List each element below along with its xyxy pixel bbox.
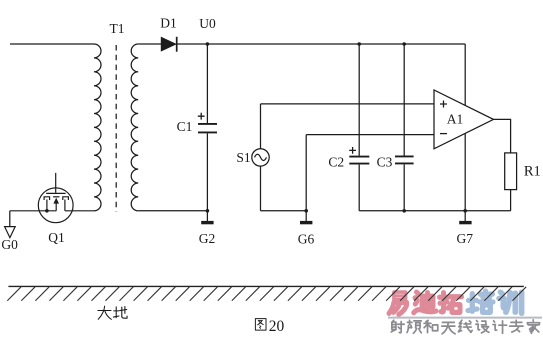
watermark char 计 <box>493 321 507 333</box>
svg-text:C3: C3 <box>377 155 393 170</box>
watermark char 迪 <box>414 292 436 313</box>
wire R1 bottom <box>510 190 512 211</box>
svg-text:A1: A1 <box>447 112 464 127</box>
svg-text:G7: G7 <box>457 231 474 246</box>
svg-text:C1: C1 <box>177 119 193 134</box>
wire op-amp +input <box>261 103 435 105</box>
watermark char 设 <box>476 321 489 333</box>
wire op-amp -input <box>306 134 434 136</box>
wire C2 top lead <box>358 44 360 156</box>
wire -input riser <box>305 135 307 211</box>
D1 cathode bar <box>176 37 178 52</box>
wire top rail down to G7 <box>464 44 466 211</box>
svg-text:C2: C2 <box>328 155 344 170</box>
Q1 arrow (N-channel) <box>53 198 59 204</box>
wire C3 bottom lead <box>403 164 405 210</box>
C3 bottom plate <box>395 162 414 164</box>
op-amp A1 <box>434 90 494 149</box>
watermark char 拓 <box>440 293 462 313</box>
Q1 drain tap <box>64 200 66 211</box>
wire S1 bottom lead <box>260 166 262 211</box>
node C3 bottom dot <box>402 209 406 213</box>
earth hatching <box>7 287 526 301</box>
svg-text:20: 20 <box>269 318 285 335</box>
G6 ground stub <box>305 211 307 221</box>
G7 ground stub <box>464 211 466 221</box>
svg-text:R1: R1 <box>524 164 541 180</box>
wire C3 top lead <box>403 44 405 156</box>
wire bottom right rail <box>359 210 510 212</box>
wire C2 bottom lead <box>358 165 360 211</box>
C1 bottom plate <box>198 131 217 133</box>
watermark char 频 <box>407 320 421 333</box>
Q1 body lead <box>55 202 57 211</box>
wire C1 top lead <box>206 44 208 123</box>
svg-text:G2: G2 <box>199 231 216 246</box>
watermark char 培 <box>468 291 493 312</box>
svg-text:G6: G6 <box>298 232 315 247</box>
wire anode <box>138 43 161 45</box>
svg-text:S1: S1 <box>236 150 250 165</box>
wire drain Q1 to primary <box>65 210 94 212</box>
C2 bottom plate <box>349 163 369 165</box>
Q1 gate lead <box>55 173 57 193</box>
Q1 source tap <box>46 200 48 211</box>
node G6 junction dot <box>304 209 308 213</box>
wire top rail U0 <box>177 43 466 45</box>
D1 anode triangle <box>161 37 175 51</box>
S1 circle <box>252 149 269 166</box>
S1 sine symbol <box>255 154 267 160</box>
label 图 (figure) <box>255 319 266 330</box>
label 大 (earth) <box>98 306 111 319</box>
watermark char 和 <box>424 320 438 332</box>
C2 top plate <box>349 156 369 158</box>
watermark char 易 <box>389 292 407 314</box>
Q1 channel segment source <box>44 197 50 200</box>
watermark char 线 <box>459 320 473 332</box>
C3 top plate <box>395 155 414 157</box>
transformer T1 primary winding <box>94 44 101 211</box>
resistor R1 <box>505 153 517 190</box>
node G2 junction dot <box>206 209 210 213</box>
wire S1 top lead <box>260 104 262 149</box>
svg-text:U0: U0 <box>199 16 216 31</box>
wire G0 riser <box>9 211 11 227</box>
C1 top plate <box>198 123 217 125</box>
plus sign C2 <box>349 147 356 154</box>
Q1 source-body junction dot <box>45 209 49 213</box>
capacitor C2 <box>349 44 369 211</box>
Q1 gate plate <box>46 192 65 194</box>
G7 ground bar <box>459 221 471 224</box>
G6 ground bar <box>300 221 312 224</box>
capacitor C1 <box>198 44 217 211</box>
transformer T1 core (dashed) <box>115 45 117 212</box>
Q1 channel segment body <box>53 196 59 198</box>
svg-text:Q1: Q1 <box>48 230 65 245</box>
op-amp plus input mark <box>440 101 447 108</box>
transformer T1 secondary winding <box>131 44 138 211</box>
transistor Q1 (MOSFET) <box>10 173 94 223</box>
Q1 channel segment drain <box>63 197 69 200</box>
wire S1 to G6 <box>261 210 307 212</box>
watermark underline <box>388 317 542 319</box>
label 地 (earth) <box>113 307 127 319</box>
ground G0 <box>5 227 16 238</box>
wire op-amp output <box>494 119 511 152</box>
capacitor C3 <box>395 44 414 211</box>
svg-text:T1: T1 <box>110 21 125 36</box>
wire source Q1 to G0 corner <box>10 210 57 212</box>
node C3 top dot <box>402 42 406 46</box>
plus sign C1 <box>198 113 205 120</box>
G2 ground bar <box>201 221 213 224</box>
node U0 junction dot <box>206 42 210 46</box>
op-amp minus input mark <box>440 133 447 135</box>
watermark char 家 <box>527 320 539 333</box>
wire C1 bottom lead <box>206 133 208 210</box>
earth line <box>8 285 523 287</box>
node G7 junction dot <box>463 209 467 213</box>
wire top-left input <box>10 43 94 45</box>
svg-text:D1: D1 <box>160 16 177 31</box>
G2 ground stub <box>206 211 208 221</box>
diode D1 <box>161 37 176 52</box>
watermark char 射 <box>391 320 404 333</box>
node C2 top dot <box>357 42 361 46</box>
source S1 <box>252 104 306 211</box>
watermark char 专 <box>510 320 523 332</box>
watermark char 天 <box>442 322 455 333</box>
wire secondary bottom to G2 <box>138 210 207 212</box>
watermark char 训 <box>499 292 522 313</box>
svg-text:G0: G0 <box>1 237 18 252</box>
